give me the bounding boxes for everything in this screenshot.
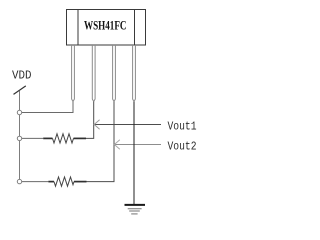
node junction 3	[17, 179, 21, 183]
svg-text:Vout1: Vout1	[168, 120, 197, 133]
wire R2 to pin 3	[87, 102, 115, 182]
pin 4	[133, 45, 136, 102]
resistor R2	[48, 177, 86, 186]
node junction 2	[17, 136, 21, 140]
arrow Vout1	[94, 120, 99, 129]
svg-text:Vout2: Vout2	[168, 140, 197, 153]
wire VDD to pin 1	[22, 102, 73, 113]
pin 3	[113, 45, 116, 102]
svg-text:VDD: VDD	[12, 70, 32, 83]
wire Vout2 lead	[115, 144, 162, 146]
pin 1	[72, 45, 75, 102]
wire R1 to pin 2	[86, 102, 94, 139]
wire VDD to R2	[22, 181, 49, 183]
node junction 1	[17, 110, 21, 114]
wire pin 4 to ground	[133, 102, 135, 204]
power VDD flag	[14, 86, 26, 95]
wire VDD to R1	[22, 137, 43, 139]
IC U1 package body	[67, 10, 146, 46]
wire Vout1 lead	[94, 124, 161, 126]
ground	[125, 205, 146, 214]
arrow Vout2	[114, 140, 119, 149]
wire VDD vertical rail	[19, 91, 21, 182]
svg-text:WSH41FC: WSH41FC	[84, 18, 127, 33]
pin 2	[92, 45, 95, 102]
resistor R1	[43, 134, 86, 143]
